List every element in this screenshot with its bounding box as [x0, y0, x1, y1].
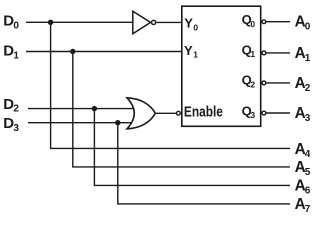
junction dot D2: [92, 106, 97, 111]
inverter U1 triangle: [133, 11, 151, 34]
OR gate U2: [127, 98, 155, 129]
wire Q0 to A0: [266, 21, 290, 23]
Q2 output bubble: [262, 81, 266, 85]
wire D3 horizontal: [28, 122, 137, 124]
junction dot D3: [115, 120, 120, 125]
wire D1 branch to A5: [73, 52, 290, 167]
svg-text:2: 2: [250, 79, 255, 89]
wire D0 horizontal: [26, 21, 133, 23]
Enable input bubble: [177, 111, 181, 115]
wire Q2 to A2: [266, 82, 290, 84]
wire D2 horizontal: [28, 108, 137, 110]
svg-text:Y: Y: [184, 43, 193, 58]
svg-text:5: 5: [305, 167, 311, 178]
inverter U1 output bubble: [152, 20, 156, 24]
svg-text:1: 1: [193, 50, 198, 60]
decoder box U3: [182, 6, 261, 126]
wire Q3 to A3: [266, 112, 290, 114]
svg-text:0: 0: [250, 19, 255, 29]
svg-text:Enable: Enable: [184, 105, 223, 121]
Q3 output bubble: [262, 111, 266, 115]
svg-text:7: 7: [305, 204, 311, 215]
wire OR output to Enable: [155, 112, 176, 114]
Q1 output bubble: [262, 51, 266, 55]
svg-text:1: 1: [250, 49, 255, 59]
svg-text:3: 3: [305, 113, 311, 124]
Q0 output bubble: [262, 20, 266, 24]
svg-text:3: 3: [250, 110, 255, 120]
svg-text:2: 2: [13, 104, 19, 115]
wire D0 branch to A4: [51, 22, 290, 148]
wire D2 branch to A6: [94, 109, 290, 186]
wire D3 branch to A7: [118, 123, 290, 204]
wire Q1 to A1: [266, 52, 290, 54]
svg-text:6: 6: [305, 186, 311, 197]
svg-text:0: 0: [305, 22, 311, 33]
junction dot D0: [48, 20, 53, 25]
svg-text:0: 0: [13, 20, 19, 31]
junction dot D1: [70, 49, 75, 54]
svg-text:4: 4: [305, 149, 311, 160]
svg-text:1: 1: [305, 53, 311, 64]
wire D1 horizontal: [26, 51, 182, 53]
svg-text:Y: Y: [184, 16, 193, 31]
svg-text:0: 0: [193, 22, 198, 32]
svg-text:2: 2: [305, 83, 311, 94]
svg-text:3: 3: [13, 123, 19, 134]
svg-text:1: 1: [13, 50, 19, 61]
wire inverter output to Y0: [156, 21, 181, 23]
